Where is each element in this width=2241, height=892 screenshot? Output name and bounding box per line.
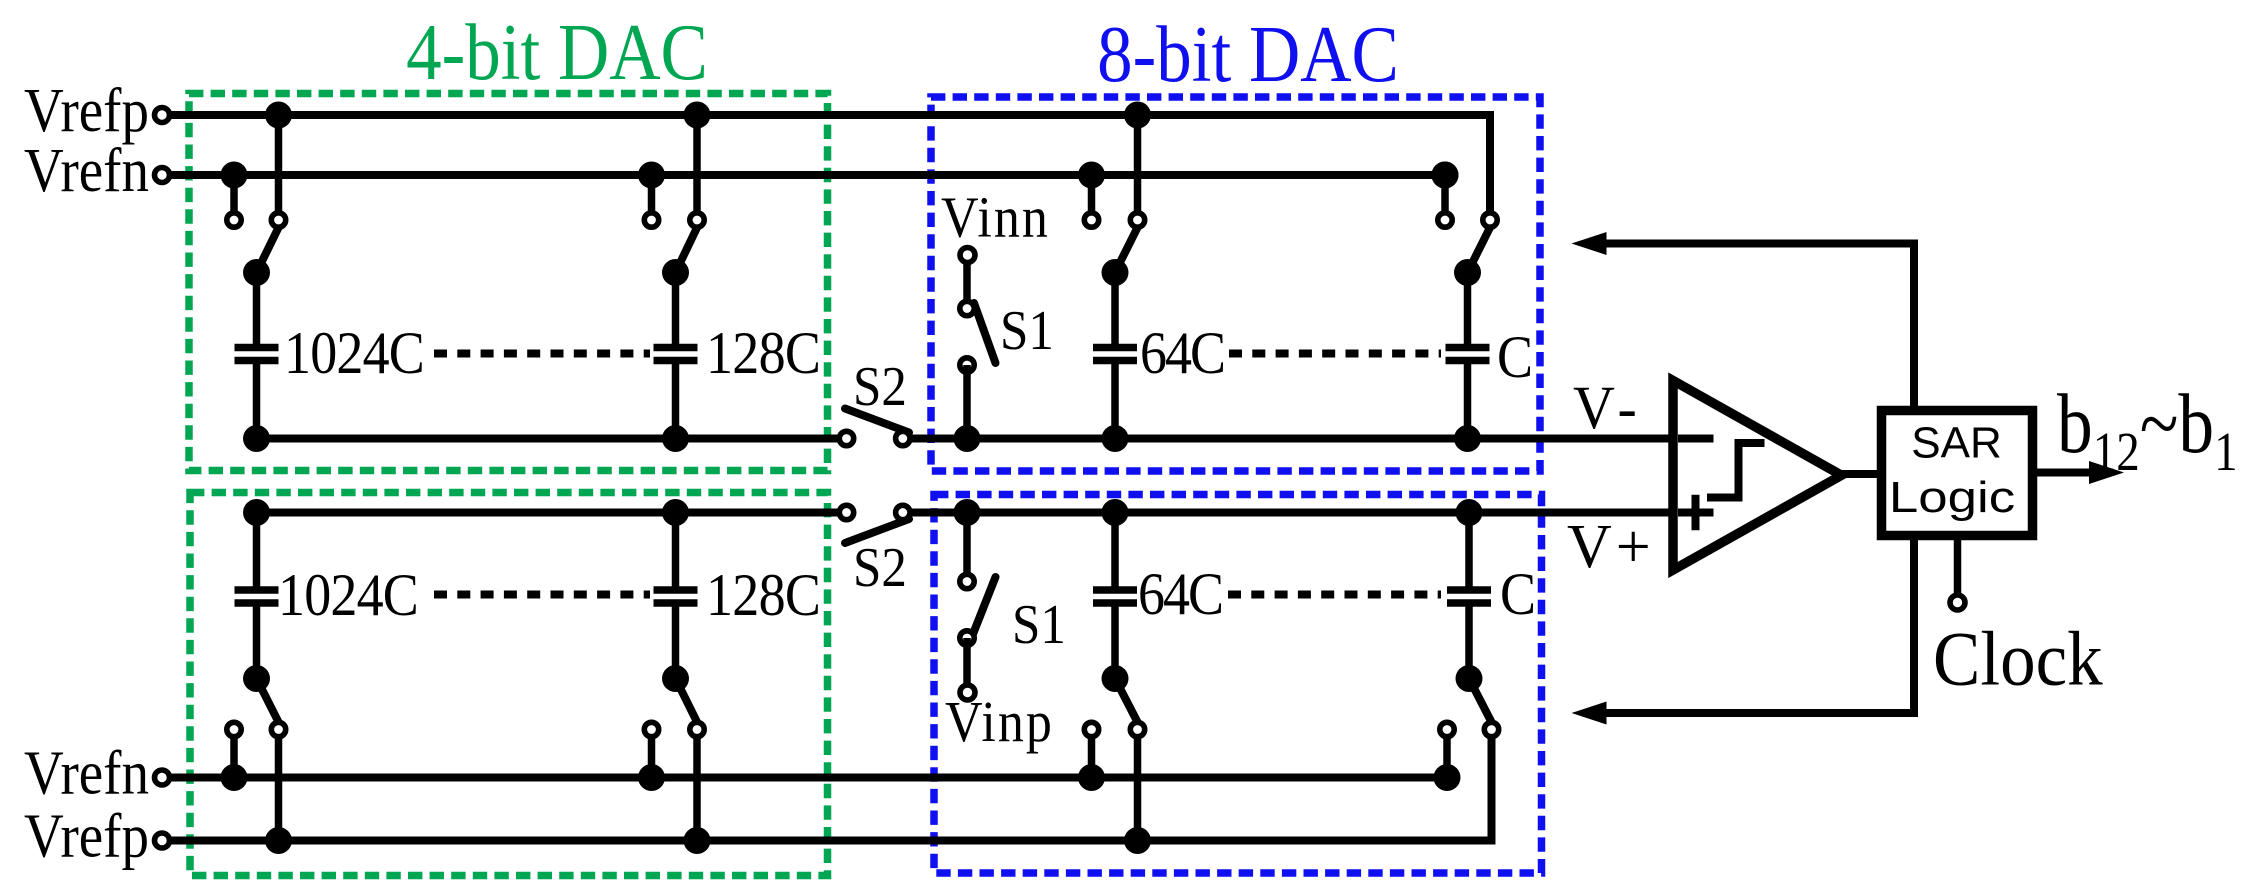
arrowhead output bus [2089, 461, 2124, 484]
wire capacitor to pole (1024C bottom) [253, 601, 261, 679]
switch S1 (top) arm [974, 303, 996, 363]
wire SAR Logic output bus [2033, 469, 2092, 477]
wire Vrefn junction to left contact (64C top) [1088, 175, 1096, 220]
junction on Vrefn rail (64C top) [1078, 162, 1105, 189]
switch contact circle Vrefp side (1024C bottom) [271, 722, 285, 736]
switch pole junction (1024C bottom) [243, 665, 270, 692]
switch arm (C bottom) [1469, 679, 1493, 726]
junction on Vrefp rail (64C top) [1124, 102, 1151, 129]
wire V- rail left segment (top DAC bottom plates to S2) [257, 435, 847, 443]
wire Vrefn junction to left contact (128C top) [648, 175, 656, 220]
junction on Vrefn rail (C bottom) [1434, 764, 1461, 791]
switch arm (128C top) [676, 225, 699, 273]
junction on Vrefp rail (128C top) [684, 102, 711, 129]
wire capacitor to V- rail (1024C top) [253, 363, 261, 439]
switch S2 (bottom) arm [845, 519, 909, 543]
wire Vrefn junction to left contact (1024C top) [230, 175, 238, 220]
wire capacitor to V- rail (64C top) [1111, 363, 1119, 439]
switch contact circle Vrefp side (64C bottom) [1130, 722, 1144, 736]
wire V+ rail junction to upper contact (S1 bottom) [963, 513, 971, 582]
svg-text:Vinp: Vinp [945, 689, 1054, 753]
wire V- rail right segment (S2 to comparator - input) [903, 435, 1673, 443]
wire Vrefn rail (bottom) [169, 774, 1447, 782]
wire V+ rail right segment (S2 to comparator + input) [903, 509, 1673, 517]
wire capacitor to V- rail (C top) [1464, 363, 1472, 439]
svg-text:C: C [1500, 561, 1536, 627]
svg-text:C: C [1497, 324, 1533, 390]
wire Vrefp rail (top) with corner down to C-branch switch [169, 115, 1490, 220]
capacitor C (bottom DAC) [1447, 590, 1491, 603]
comparator - input marker [1678, 435, 1714, 443]
comparator + input marker [1678, 495, 1714, 531]
switch contact circle Vrefn side (C bottom) [1440, 722, 1454, 736]
switch S1 (top) upper contact [960, 301, 974, 315]
wire Vrefp rail (bottom) with corner up to C-branch switch [169, 730, 1492, 841]
switch S2 (bottom) right contact [896, 505, 910, 519]
capacitor 1024C (bottom DAC) [235, 590, 279, 603]
8-bit DAC boundary box (bottom, blue dashed) [934, 495, 1542, 874]
wire pole to capacitor (C top) [1464, 273, 1472, 346]
switch contact circle Vrefp side (64C top) [1130, 213, 1144, 227]
wire capacitor to pole (C bottom) [1465, 601, 1473, 679]
wire Vrefn junction to left contact (C top) [1441, 175, 1449, 220]
switch contact circle Vrefn side (64C top) [1084, 213, 1098, 227]
terminal Vrefp (top) [155, 108, 170, 123]
switch pole junction (128C bottom) [662, 665, 689, 692]
capacitor 64C (bottom DAC) [1093, 590, 1137, 603]
wire Vrefp junction down to right contact (128C top) [693, 115, 701, 220]
wire Vrefp junction down to right contact (64C top) [1134, 115, 1142, 220]
switch contact circle Vrefp side (128C top) [690, 213, 704, 227]
capacitor C (top DAC) [1446, 348, 1490, 361]
comparator hysteresis symbol [1707, 443, 1765, 498]
switch arm (128C bottom) [676, 679, 699, 726]
wire Vrefn rail (top) [169, 171, 1445, 179]
svg-text:128C: 128C [706, 320, 820, 386]
switch S2 (bottom) left contact [839, 505, 853, 519]
switch contact circle Vrefn side (C top) [1438, 213, 1452, 227]
svg-text:8-bit DAC: 8-bit DAC [1097, 11, 1399, 99]
junction on Vrefn rail (1024C top) [221, 162, 248, 189]
svg-text:Vrefp: Vrefp [24, 801, 149, 870]
switch S2 (top) right contact [896, 431, 910, 445]
junction at Vrefn rail end (C top) [1432, 162, 1459, 189]
switch S1 (top) lower contact [960, 358, 974, 372]
wire right contact down to Vrefp rail (128C bottom) [693, 730, 701, 841]
junction on Vrefn rail (128C bottom) [638, 764, 665, 791]
svg-text:V+: V+ [1567, 513, 1655, 581]
junction on V- rail (1024C top) [243, 425, 270, 452]
svg-text:64C: 64C [1138, 561, 1222, 627]
capacitor 128C (bottom DAC) [654, 590, 698, 603]
svg-text:SAR: SAR [1911, 419, 2001, 468]
junction on V+ rail (C bottom) [1456, 499, 1483, 526]
ellipsis dashed wire between 1024C and 128C (bottom) [434, 591, 650, 599]
junction S1 on V+ rail (bottom) [954, 499, 981, 526]
junction S1 on V- rail (top) [954, 425, 981, 452]
wire S1 lower contact to V- rail (top) [963, 365, 971, 439]
junction on V+ rail (1024C bottom) [243, 499, 270, 526]
switch S2 (top) left contact [839, 431, 853, 445]
svg-text:Vrefn: Vrefn [24, 738, 149, 807]
svg-text:Vrefp: Vrefp [24, 76, 149, 145]
junction on V+ rail (128C bottom) [662, 499, 689, 526]
wire comparator output to SAR Logic [1840, 470, 1882, 478]
SAR Logic block U2 [1882, 411, 2033, 536]
svg-text:S2: S2 [853, 355, 907, 418]
wire pole to capacitor (64C top) [1111, 273, 1119, 346]
svg-text:128C: 128C [706, 562, 820, 628]
wire SAR feedback to top DAC (with corner) [1604, 244, 1914, 411]
svg-text:64C: 64C [1140, 320, 1224, 386]
4-bit DAC boundary box (bottom, green dashed) [190, 493, 828, 876]
wire pole to capacitor (128C top) [672, 273, 680, 346]
switch contact circle Vrefp side (128C bottom) [690, 722, 704, 736]
capacitor 128C (top DAC) [654, 348, 698, 361]
junction on Vrefp rail (1024C top) [265, 102, 292, 129]
switch contact circle Vrefp side (C top) [1483, 213, 1497, 227]
terminal Vrefn (top) [155, 168, 170, 183]
svg-text:1024C: 1024C [284, 320, 424, 386]
wire V+ rail to capacitor (C bottom) [1465, 513, 1473, 593]
junction on V+ rail (64C bottom) [1102, 499, 1129, 526]
wire left contact to Vrefn rail (128C bottom) [648, 730, 656, 778]
switch contact circle Vrefn side (1024C bottom) [227, 722, 241, 736]
wire left contact to Vrefn rail (C bottom) [1443, 730, 1451, 778]
switch arm (64C top) [1115, 225, 1139, 273]
wire right contact down to Vrefp rail (1024C bottom) [275, 730, 283, 841]
junction on Vrefn rail (128C top) [638, 162, 665, 189]
junction on V- rail (C top) [1454, 425, 1481, 452]
terminal Clock [1950, 595, 1965, 610]
switch contact circle Vrefn side (128C top) [644, 213, 658, 227]
junction on Vrefn rail (C top) [1432, 162, 1459, 189]
junction on Vrefp rail (128C bottom) [684, 827, 711, 854]
svg-text:Logic: Logic [1889, 473, 2015, 522]
switch contact circle Vrefp side (1024C top) [271, 213, 285, 227]
wire Vinn terminal to upper contact (S1 top) [963, 255, 971, 309]
ellipsis dashed wire between 64C and C (bottom) [1228, 591, 1441, 599]
switch pole junction (1024C top) [243, 259, 270, 286]
comparator U1 (triangle) [1673, 381, 1842, 571]
4-bit DAC boundary box (top, green dashed) [189, 94, 828, 471]
wire V+ rail to capacitor (128C bottom) [672, 513, 680, 593]
junction on V- rail (128C top) [662, 425, 689, 452]
switch S1 (bottom) upper contact [960, 574, 974, 588]
wire SAR Logic to Clock terminal [1954, 536, 1962, 596]
svg-text:S1: S1 [1012, 593, 1066, 656]
wire V+ rail to capacitor (64C bottom) [1111, 513, 1119, 593]
switch pole junction (128C top) [662, 259, 689, 286]
switch pole junction (64C top) [1102, 259, 1129, 286]
terminal Vinn [960, 248, 975, 263]
junction on Vrefp rail (1024C bottom) [265, 827, 292, 854]
wire V+ rail to capacitor (1024C bottom) [253, 513, 261, 593]
svg-text:4-bit DAC: 4-bit DAC [406, 9, 708, 97]
junction on Vrefn rail (1024C bottom) [221, 764, 248, 791]
terminal Vinp [960, 685, 975, 700]
switch contact circle Vrefn side (64C bottom) [1084, 722, 1098, 736]
wire capacitor to pole (128C bottom) [672, 601, 680, 679]
wire Vrefp junction down to right contact (1024C top) [275, 115, 283, 220]
svg-text:S2: S2 [853, 536, 907, 599]
svg-text:S1: S1 [1000, 299, 1054, 362]
svg-text:V-: V- [1573, 374, 1645, 442]
svg-text:Vrefn: Vrefn [24, 136, 149, 205]
junction on Vrefn rail (64C bottom) [1078, 764, 1105, 791]
switch arm (1024C bottom) [257, 679, 281, 726]
svg-text:b12~b1: b12~b1 [2057, 376, 2238, 482]
capacitor 1024C (top DAC) [235, 348, 279, 361]
wire SAR feedback to bottom DAC (with corner) [1604, 536, 1914, 714]
arrowhead feedback top [1572, 232, 1607, 255]
switch S1 (bottom) arm [973, 577, 996, 634]
ellipsis dashed wire between 1024C and 128C (top) [434, 350, 650, 358]
switch contact circle Vrefn side (128C bottom) [644, 722, 658, 736]
wire capacitor to V- rail (128C top) [672, 363, 680, 439]
switch contact circle Vrefn side (1024C top) [227, 213, 241, 227]
switch S2 (top) arm [845, 409, 909, 433]
svg-text:1024C: 1024C [278, 562, 418, 628]
switch pole junction (64C bottom) [1102, 665, 1129, 692]
terminal Vrefp (bottom) [155, 833, 170, 848]
wire right contact down to Vrefp rail (64C bottom) [1134, 730, 1142, 841]
wire S1 lower contact to Vinp terminal [963, 638, 971, 692]
switch contact circle Vrefp side (C bottom) [1484, 722, 1498, 736]
ellipsis dashed wire between 64C and C (top) [1229, 350, 1441, 358]
wire left contact to Vrefn rail (1024C bottom) [230, 730, 238, 778]
wire pole to capacitor (1024C top) [253, 273, 261, 346]
switch arm (C top) [1468, 225, 1492, 273]
arrowhead feedback bottom [1572, 702, 1607, 725]
terminal Vrefn (bottom) [155, 770, 170, 785]
svg-text:Vinn: Vinn [941, 185, 1050, 249]
switch arm (64C bottom) [1115, 679, 1139, 726]
switch pole junction (C top) [1454, 259, 1481, 286]
junction on V- rail (64C top) [1102, 425, 1129, 452]
junction on Vrefp rail (64C bottom) [1124, 827, 1151, 854]
wire capacitor to pole (64C bottom) [1111, 601, 1119, 679]
switch pole junction (C bottom) [1456, 665, 1483, 692]
wire left contact to Vrefn rail (64C bottom) [1088, 730, 1096, 778]
switch S1 (bottom) lower contact [960, 631, 974, 645]
wire V+ rail left segment (bottom DAC top plates to S2) [257, 509, 847, 517]
capacitor 64C (top DAC) [1093, 348, 1137, 361]
svg-text:Clock: Clock [1933, 617, 2103, 702]
8-bit DAC boundary box (top, blue dashed) [931, 97, 1540, 471]
switch arm (1024C top) [257, 225, 281, 273]
